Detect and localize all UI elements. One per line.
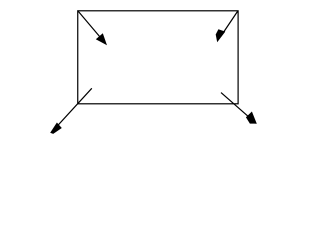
arrow top-left <box>78 11 107 45</box>
arrow bottom-right <box>221 93 257 124</box>
arrow bottom-left <box>50 88 92 134</box>
arrow top-right <box>216 11 238 42</box>
rectangle <box>78 11 238 104</box>
